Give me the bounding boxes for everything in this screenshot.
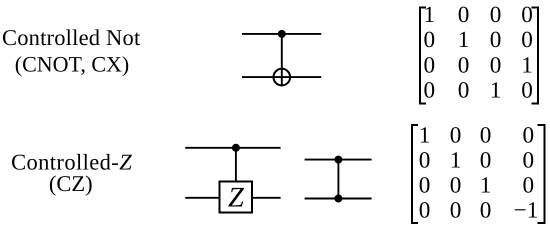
wire: CZ target qubit line right segment bbox=[253, 197, 281, 199]
svg-text:0: 0 bbox=[521, 2, 533, 28]
svg-text:0: 0 bbox=[419, 197, 431, 223]
svg-text:0: 0 bbox=[480, 197, 492, 223]
svg-text:0: 0 bbox=[450, 197, 462, 223]
control dot: CZ symmetric top bbox=[334, 156, 342, 164]
svg-text:1: 1 bbox=[419, 123, 431, 149]
svg-text:−1: −1 bbox=[514, 197, 539, 223]
svg-text:0: 0 bbox=[450, 173, 462, 199]
svg-text:0: 0 bbox=[480, 123, 492, 149]
svg-text:0: 0 bbox=[419, 148, 431, 174]
bracket: CZ matrix right bbox=[538, 125, 545, 223]
svg-text:1: 1 bbox=[480, 173, 492, 199]
svg-text:0: 0 bbox=[523, 148, 535, 174]
control dot: CZ symmetric bottom bbox=[334, 195, 342, 203]
svg-text:0: 0 bbox=[424, 78, 436, 104]
gate: Z box bbox=[220, 182, 253, 213]
svg-text:1: 1 bbox=[458, 27, 470, 53]
wire: CNOT target qubit line bbox=[242, 76, 321, 78]
svg-text:0: 0 bbox=[521, 78, 533, 104]
svg-text:0: 0 bbox=[480, 148, 492, 174]
svg-text:0: 0 bbox=[458, 52, 470, 78]
svg-text:(CNOT, CX): (CNOT, CX) bbox=[15, 51, 129, 76]
wire: CZ symmetric bottom line bbox=[305, 198, 372, 200]
svg-text:1: 1 bbox=[450, 148, 462, 174]
wire: CNOT control qubit line bbox=[242, 33, 321, 35]
wire: CZ vertical connector bbox=[235, 148, 237, 181]
svg-text:0: 0 bbox=[490, 27, 502, 53]
svg-text:0: 0 bbox=[450, 123, 462, 149]
svg-text:Z: Z bbox=[228, 183, 245, 214]
svg-text:(CZ): (CZ) bbox=[49, 171, 93, 196]
bracket: CNOT matrix right bbox=[532, 8, 539, 104]
svg-text:1: 1 bbox=[424, 2, 436, 28]
svg-text:0: 0 bbox=[523, 173, 535, 199]
control dot: CNOT control bbox=[278, 30, 286, 38]
bracket: CZ matrix left bbox=[412, 125, 418, 223]
svg-text:0: 0 bbox=[490, 52, 502, 78]
svg-text:Controlled Not: Controlled Not bbox=[2, 25, 141, 50]
svg-text:0: 0 bbox=[458, 78, 470, 104]
svg-text:0: 0 bbox=[458, 2, 470, 28]
bracket: CNOT matrix left bbox=[420, 8, 426, 104]
svg-text:0: 0 bbox=[521, 27, 533, 53]
wire: CZ symmetric vertical connector bbox=[337, 160, 339, 199]
wire: CNOT vertical connector bbox=[281, 34, 283, 87]
control dot: CZ control bbox=[232, 144, 240, 152]
svg-text:0: 0 bbox=[424, 27, 436, 53]
svg-text:0: 0 bbox=[490, 2, 502, 28]
wire: CZ target qubit line left segment bbox=[185, 197, 219, 199]
svg-text:0: 0 bbox=[523, 123, 535, 149]
svg-text:1: 1 bbox=[490, 78, 502, 104]
gate: CNOT target (XOR circle) bbox=[274, 69, 291, 86]
wire: CZ symmetric top line bbox=[305, 159, 372, 161]
svg-text:0: 0 bbox=[424, 52, 436, 78]
wire: CZ control qubit line bbox=[185, 147, 280, 149]
svg-text:0: 0 bbox=[419, 173, 431, 199]
svg-text:1: 1 bbox=[521, 52, 533, 78]
